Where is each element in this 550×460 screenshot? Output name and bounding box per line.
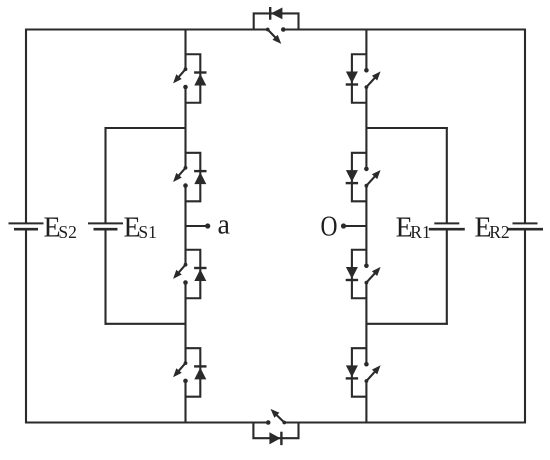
wire: right leg segment 3 <box>365 186 367 266</box>
wire: top bus right segment <box>283 28 526 30</box>
switch S_top (blade open, arrow down-right) <box>266 27 286 44</box>
label E_R1 <box>396 213 431 244</box>
diode D_L2 (antiparallel, pointing up) <box>194 171 206 184</box>
switch S_L2 (blade open, arrow down-left) <box>173 166 188 188</box>
wire: top bus left segment <box>25 28 268 30</box>
wire: left outer branch upper (E_S2 branch) <box>25 29 27 224</box>
wire: right cell 3 bypass loop <box>352 250 367 299</box>
wire: right outer branch lower (E_R2 branch) <box>524 229 526 423</box>
label O <box>321 211 338 243</box>
switch S_L1 (blade open, arrow down-left) <box>173 67 188 89</box>
diode D_bottom (pointing right) <box>269 432 281 445</box>
wire: bottom bus left segment <box>25 421 268 423</box>
wire: bottom bus right segment <box>284 421 526 423</box>
wire: right leg segment 4 <box>365 283 367 365</box>
label a <box>218 210 231 241</box>
wire: left cell 4 bypass loop <box>186 348 201 397</box>
wire: E_R1 branch top horizontal <box>366 127 447 129</box>
wire: left leg segment 4 <box>184 283 186 364</box>
wire: bottom bypass loop <box>253 423 298 439</box>
label E_S1 <box>124 213 157 244</box>
battery E_S2 <box>9 223 44 229</box>
switch S_R2 (blade open, arrow up-right) <box>364 167 381 188</box>
diode D_R3 (antiparallel, pointing down) <box>346 267 358 280</box>
wire: left outer branch lower (E_S2 branch) <box>25 229 27 423</box>
switch S_R4 (blade open, arrow up-right) <box>364 362 381 383</box>
wire: right cell 1 bypass loop <box>352 54 367 103</box>
wire: right leg segment 2 <box>365 87 367 169</box>
diode D_L1 (antiparallel, pointing up) <box>194 73 206 86</box>
diode D_L4 (antiparallel, pointing up) <box>194 366 206 379</box>
wire: E_S1 branch vertical lower <box>104 229 106 325</box>
wire: right cell 4 bypass loop <box>352 348 367 397</box>
diode D_L3 (antiparallel, pointing up) <box>194 268 206 281</box>
wire: right leg segment 5 <box>365 381 367 423</box>
wire: right leg segment 1 <box>365 30 367 71</box>
switch S_R3 (blade open, arrow up-right) <box>364 264 381 285</box>
wire: left cell 3 bypass loop <box>186 250 201 299</box>
wire: left cell 2 bypass loop <box>186 153 201 202</box>
wire: E_R1 branch vertical lower <box>446 229 448 325</box>
battery E_R1 <box>429 223 465 229</box>
switch S_L3 (blade open, arrow down-left) <box>173 263 188 285</box>
wire: E_S1 branch vertical upper <box>104 127 106 223</box>
wire: E_S1 branch bottom horizontal <box>105 323 186 325</box>
wire: E_R1 branch bottom horizontal <box>366 323 447 325</box>
switch S_R1 (blade open, arrow up-right) <box>364 68 381 89</box>
svg-text:O: O <box>321 211 338 243</box>
wire: left leg segment 5 <box>184 381 186 423</box>
svg-text:ER2: ER2 <box>475 213 510 244</box>
wire: top bypass loop <box>254 13 299 29</box>
wire: left leg segment 2 <box>184 87 186 168</box>
node O: junction dot and stub wire <box>341 223 367 228</box>
wire: left leg segment 1 <box>184 30 186 70</box>
wire: right outer branch upper (E_R2 branch) <box>524 29 526 224</box>
svg-text:a: a <box>218 210 231 241</box>
wire: left leg segment 3 <box>184 186 186 265</box>
node a: stub wire and junction dot <box>186 223 211 228</box>
wire: right cell 2 bypass loop <box>352 153 367 202</box>
diode D_top (pointing left) <box>270 7 282 20</box>
wire: left cell 1 bypass loop <box>186 54 201 103</box>
battery E_R2 <box>507 223 543 229</box>
wire: E_R1 branch vertical upper <box>446 127 448 223</box>
wire: E_S1 branch top horizontal <box>105 127 186 129</box>
diode D_R2 (antiparallel, pointing down) <box>346 170 358 183</box>
battery E_S1 <box>88 223 123 229</box>
svg-text:ES1: ES1 <box>124 213 157 244</box>
label E_S2 <box>44 213 77 244</box>
svg-text:ES2: ES2 <box>44 213 77 244</box>
label E_R2 <box>475 213 510 244</box>
svg-text:ER1: ER1 <box>396 213 431 244</box>
switch S_bottom (blade open, arrow up-left) <box>266 409 286 425</box>
diode D_R1 (antiparallel, pointing down) <box>346 72 358 85</box>
switch S_L4 (blade open, arrow down-left) <box>173 361 188 383</box>
diode D_R4 (antiparallel, pointing down) <box>346 365 358 378</box>
